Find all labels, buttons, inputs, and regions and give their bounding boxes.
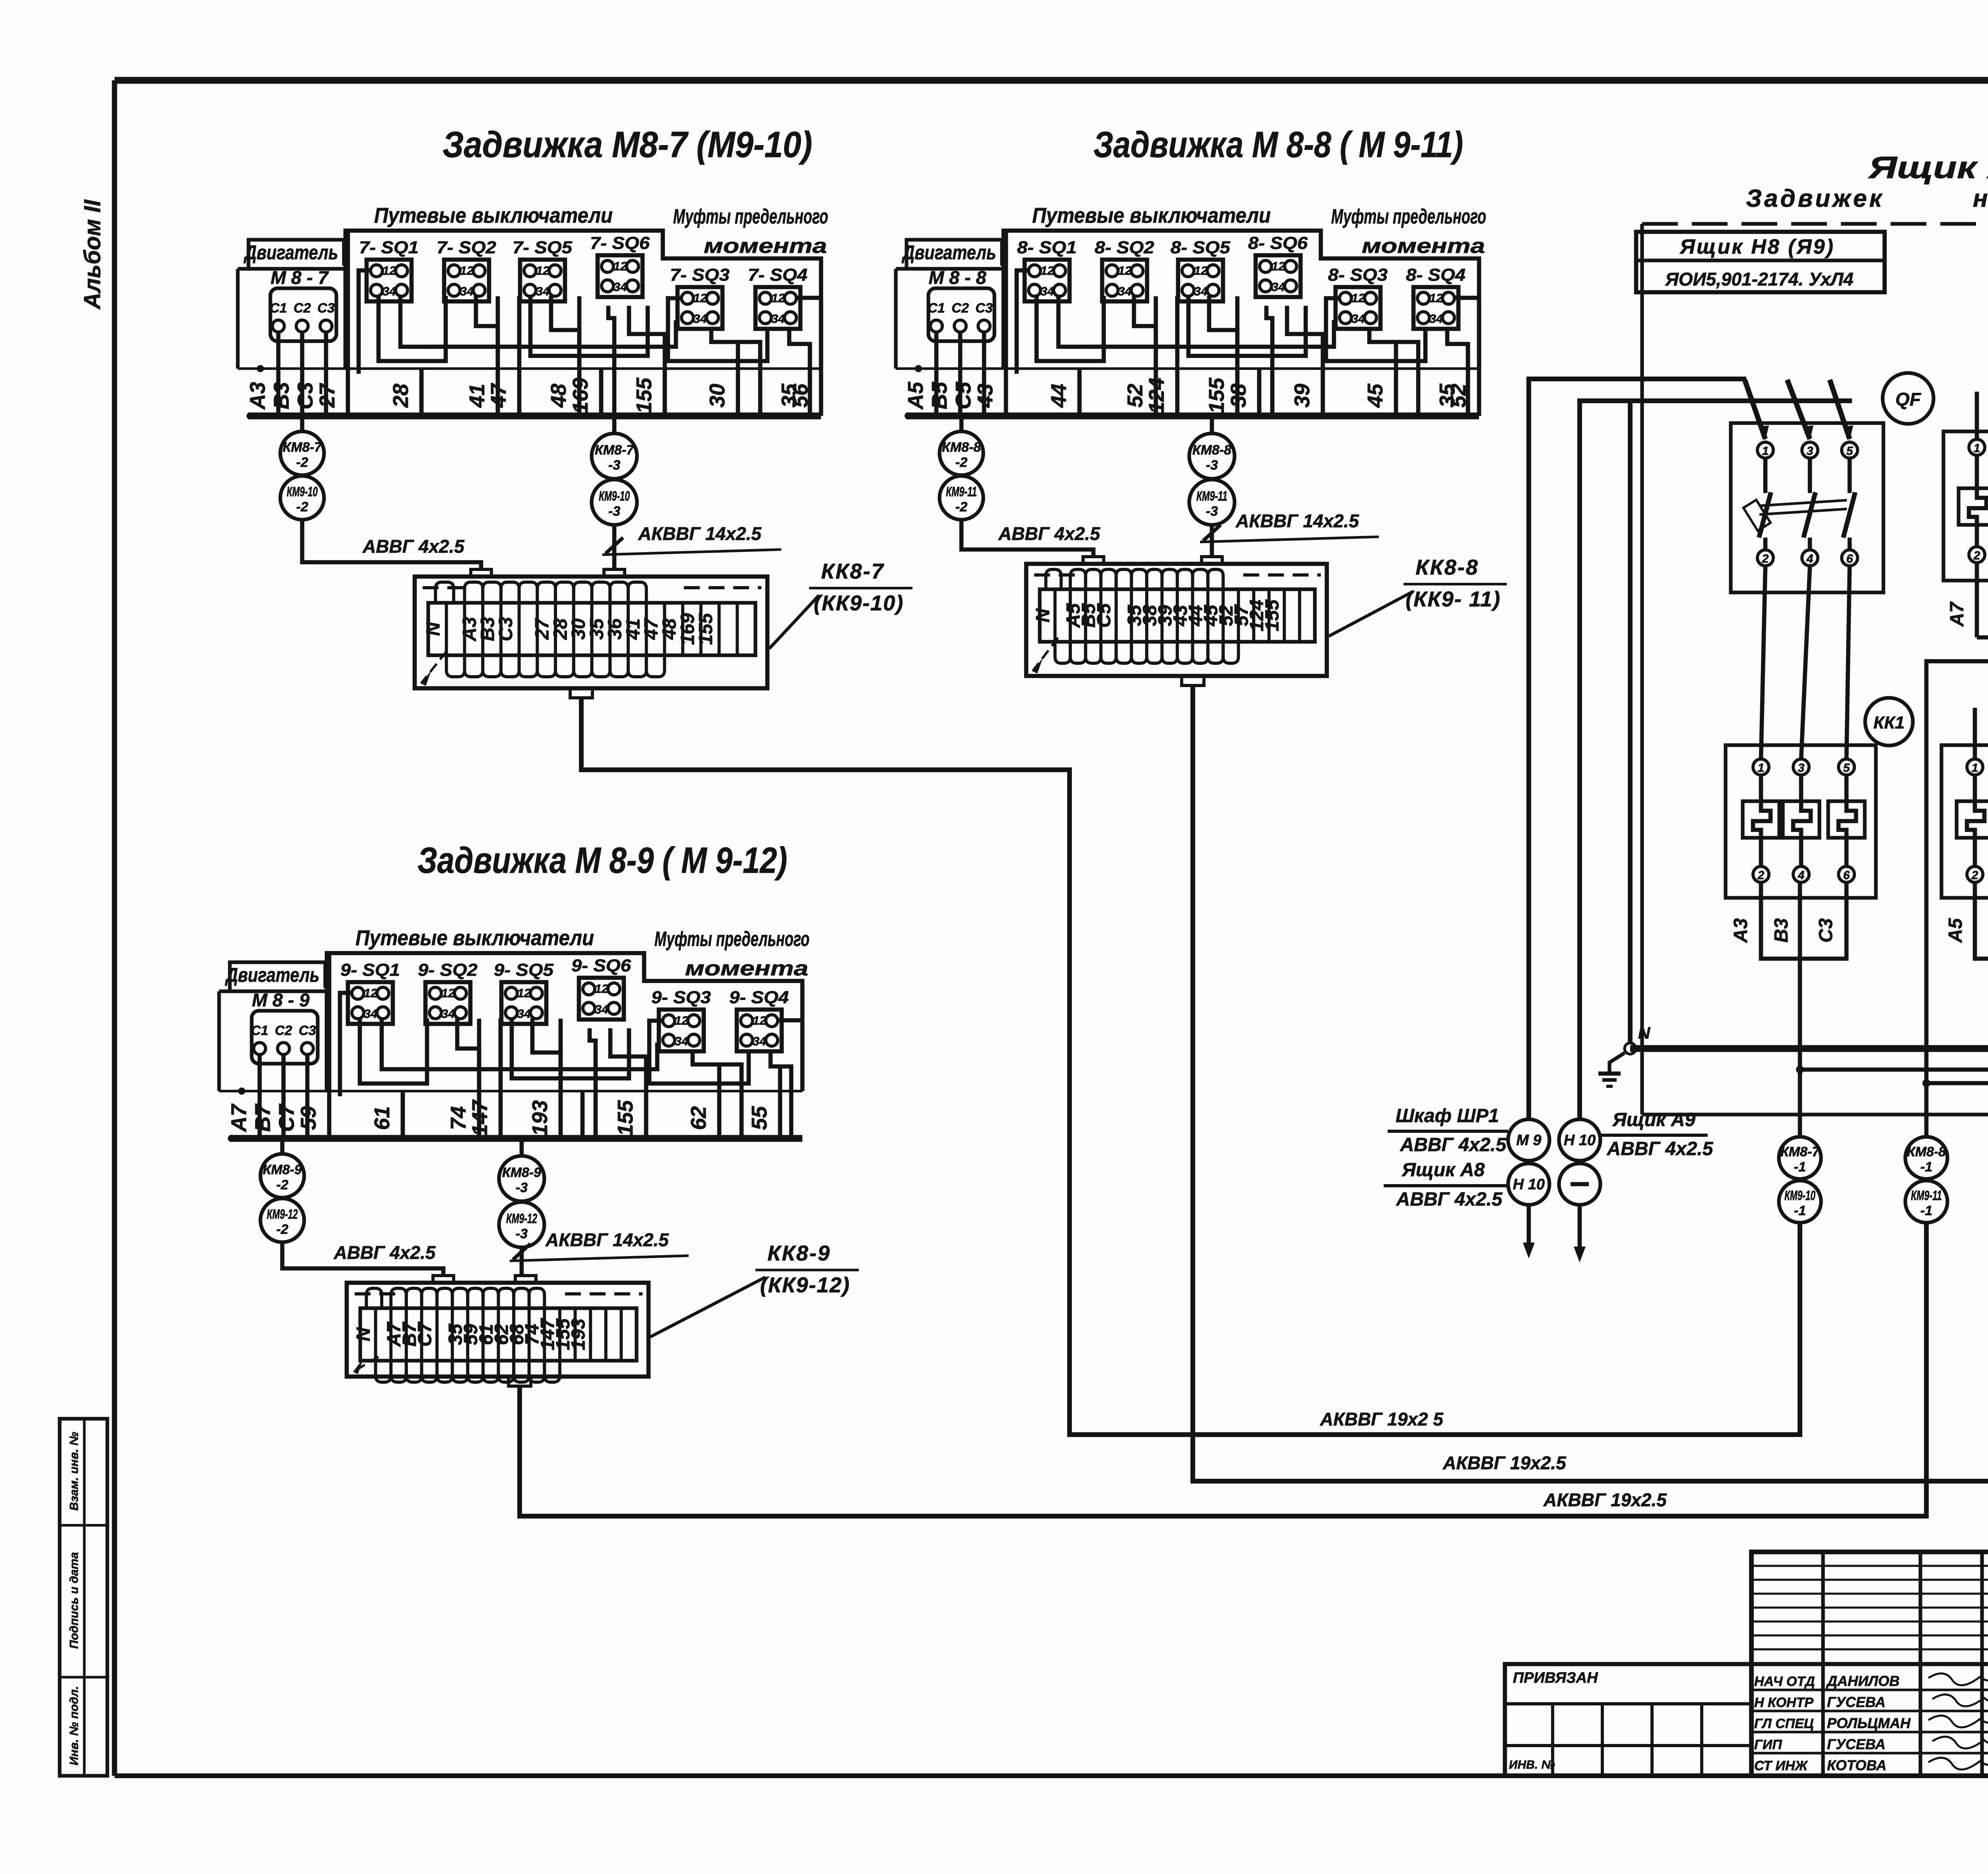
label Ящик А9 АВВГ 4х2.5 [1600, 1109, 1714, 1159]
svg-text:34: 34 [1194, 284, 1208, 298]
svg-text:12: 12 [1272, 259, 1285, 273]
contactor contact КМ8-7-1 [1779, 1137, 1821, 1179]
contactor contact КМ9-12|-2 [260, 1198, 304, 1242]
svg-text:Ящик Н8 (Я9): Ящик Н8 (Я9) [1679, 235, 1835, 258]
svg-text:-2: -2 [296, 455, 308, 470]
svg-text:3: 3 [1807, 445, 1813, 458]
svg-text:34: 34 [1429, 312, 1443, 326]
svg-text:ГЛ СПЕЦ: ГЛ СПЕЦ [1754, 1716, 1814, 1731]
svg-text:А3: А3 [1730, 918, 1751, 943]
svg-text:7- SQ2: 7- SQ2 [437, 238, 497, 257]
svg-text:Муфты предельного: Муфты предельного [1331, 205, 1486, 228]
svg-text:КМ8-9: КМ8-9 [502, 1165, 541, 1180]
source circle M9 [1508, 1119, 1549, 1161]
contactor contact КМ8-7|-2 [280, 418, 324, 475]
svg-text:155: 155 [613, 1100, 637, 1136]
cable АКВВГ 14х2.5 [602, 523, 781, 569]
svg-text:КМ8-8: КМ8-8 [942, 440, 981, 455]
wire 74 [447, 1019, 479, 1138]
terminal strip КК8-7 [415, 569, 767, 698]
limit switch 9-SQ1 [340, 960, 400, 1024]
terminal strip КК8-8 [1026, 557, 1327, 686]
terminal strip КК8-9 [347, 1276, 648, 1386]
svg-text:30: 30 [705, 384, 729, 408]
svg-text:Двигатель: Двигатель [225, 964, 319, 986]
N bus wire [1630, 676, 1988, 1053]
svg-text:74: 74 [447, 1106, 470, 1130]
wire В3 [270, 331, 302, 416]
svg-text:КК8-9: КК8-9 [767, 1241, 831, 1265]
svg-text:27: 27 [315, 383, 339, 408]
label Ящик А8 АВВГ 4х2.5 [1384, 1159, 1508, 1210]
svg-text:9- SQ6: 9- SQ6 [571, 956, 631, 975]
svg-text:7- SQ1: 7- SQ1 [359, 238, 419, 257]
svg-text:Альбом II: Альбом II [80, 199, 105, 310]
wire С7 [275, 1054, 307, 1138]
svg-text:Путевые выключатели: Путевые выключатели [355, 926, 594, 950]
label Муфты предельного момента [654, 928, 810, 980]
svg-text:1: 1 [1762, 445, 1769, 458]
svg-text:КМ9-10: КМ9-10 [287, 484, 318, 499]
svg-text:12: 12 [517, 986, 531, 1000]
svg-text:155: 155 [1262, 599, 1283, 631]
contactor contact КМ8-7|-3 [592, 418, 637, 479]
feeder wire from cabinet ШР1 (M9) [1529, 379, 1746, 1119]
contactor contact КМ8-9|-3 [499, 1140, 544, 1201]
svg-text:5: 5 [1843, 761, 1850, 775]
svg-text:ГУСЕВА: ГУСЕВА [1827, 1736, 1885, 1752]
label Двигатель [225, 962, 325, 991]
svg-text:Взам. инв. №: Взам. инв. № [68, 1432, 81, 1511]
wire С5 [951, 331, 984, 416]
wire 27 [315, 231, 348, 416]
svg-text:34: 34 [595, 1002, 608, 1016]
ground symbol [1598, 1053, 1625, 1086]
wire В7 [251, 1054, 283, 1138]
svg-text:ГУСЕВА: ГУСЕВА [1827, 1694, 1885, 1710]
svg-text:КМ9-12: КМ9-12 [267, 1207, 298, 1222]
label circle KK1 [1865, 698, 1913, 746]
svg-text:12: 12 [595, 982, 608, 996]
svg-text:2: 2 [1757, 869, 1765, 882]
svg-text:С3: С3 [1815, 918, 1837, 943]
svg-text:Н КОНТР: Н КОНТР [1754, 1695, 1813, 1710]
svg-text:12: 12 [753, 1014, 766, 1027]
contactor contact КМ9-11-1 [1905, 1181, 1947, 1223]
svg-text:62: 62 [687, 1106, 711, 1130]
svg-text:(КК9- 11): (КК9- 11) [1406, 587, 1501, 611]
svg-text:АКВВГ 14х2.5: АКВВГ 14х2.5 [1235, 511, 1359, 531]
wire 62 [687, 1064, 719, 1138]
svg-text:43: 43 [973, 384, 997, 408]
strip label КК8-8 [1329, 555, 1507, 636]
svg-text:В7: В7 [251, 1103, 275, 1132]
label Путевые выключатели [374, 204, 613, 227]
motor enclosure М 8 - 9 [219, 990, 325, 1091]
cable АКВВГ 14х2.5 [510, 1229, 689, 1276]
limit switch 7-SQ1 [359, 238, 419, 301]
svg-text:А5: А5 [1945, 918, 1966, 943]
switch interconnection wires [1017, 270, 1479, 416]
svg-text:193: 193 [528, 1100, 552, 1136]
svg-text:АКВВГ 19х2.5: АКВВГ 19х2.5 [1442, 1453, 1567, 1473]
svg-text:34: 34 [771, 312, 785, 326]
thermal relay KK1 [1726, 745, 1876, 898]
svg-text:34: 34 [517, 1007, 531, 1021]
svg-text:155: 155 [1205, 377, 1229, 414]
svg-text:55: 55 [747, 1106, 771, 1130]
svg-text:9- SQ5: 9- SQ5 [494, 960, 554, 980]
wire А3 [246, 331, 278, 416]
svg-text:АВВГ 4х2.5: АВВГ 4х2.5 [1607, 1138, 1714, 1159]
svg-text:8- SQ4: 8- SQ4 [1406, 265, 1466, 285]
svg-text:Двигатель: Двигатель [243, 241, 338, 264]
svg-text:Задвижка М8-7 (М9-10): Задвижка М8-7 (М9-10) [443, 124, 812, 165]
label Муфты предельного момента [1331, 205, 1486, 258]
wire 35 [1435, 344, 1468, 416]
svg-text:АВВГ 4х2.5: АВВГ 4х2.5 [334, 1242, 436, 1263]
cable run KK8-8 АКВВГ 19х2.5 [1193, 686, 1988, 1481]
contactor contact КМ9-12|-3 [499, 1202, 544, 1247]
wire 52 [1446, 298, 1479, 416]
svg-text:1: 1 [1972, 761, 1978, 775]
contactor contact КМ8-9|-2 [260, 1140, 304, 1198]
svg-text:АКВВГ 19х2.5: АКВВГ 19х2.5 [1543, 1489, 1667, 1510]
svg-text:момента: момента [685, 957, 808, 980]
harness top line [238, 367, 821, 370]
svg-text:КМ8-9: КМ8-9 [263, 1162, 302, 1177]
svg-text:12: 12 [1194, 264, 1208, 278]
svg-text:С3: С3 [299, 1023, 316, 1038]
wire 45 [1363, 342, 1396, 416]
svg-text:8- SQ6: 8- SQ6 [1248, 233, 1308, 253]
KK1 output wires A3 B3 C3 [1730, 882, 1846, 1137]
svg-text:4: 4 [1806, 552, 1813, 565]
contactor contact КМ8-8|-2 [940, 418, 983, 475]
wire 169 [569, 370, 601, 416]
source circle H10 (pair2) [1559, 1119, 1600, 1161]
panel subtitle Задвижек насосов песколовок [1746, 185, 1988, 212]
svg-text:34: 34 [693, 312, 707, 326]
torque clutch switch 9-SQ3 [651, 988, 711, 1051]
svg-text:(КК9-10): (КК9-10) [814, 591, 904, 615]
cable АВВГ 4х2.5 [302, 520, 481, 569]
svg-text:-3: -3 [1206, 458, 1218, 473]
svg-text:АКВВГ 14х2.5: АКВВГ 14х2.5 [545, 1229, 669, 1250]
harness top line [219, 1090, 802, 1093]
torque clutch switch 8-SQ4 [1406, 265, 1466, 329]
wire 38 [1227, 370, 1259, 416]
svg-text:С1: С1 [251, 1023, 268, 1038]
svg-text:Двигатель: Двигатель [901, 241, 996, 264]
svg-text:С5: С5 [1094, 603, 1115, 628]
cable АКВВГ 14х2.5 [1200, 511, 1379, 557]
svg-text:5: 5 [1846, 445, 1854, 458]
limit switch 7-SQ6 [590, 233, 650, 297]
limit switch 8-SQ6 [1248, 233, 1308, 297]
svg-text:12: 12 [1351, 291, 1365, 305]
switch interconnection wires [340, 993, 802, 1138]
svg-text:С5: С5 [951, 382, 975, 410]
svg-text:С3: С3 [975, 301, 993, 316]
svg-text:Ящик А9: Ящик А9 [1612, 1109, 1696, 1130]
section title Задвижка М 8-8 ( М 9-11) [1093, 124, 1463, 165]
svg-text:М 9: М 9 [1516, 1132, 1541, 1149]
svg-text:12: 12 [536, 264, 549, 278]
svg-text:КМ8-8: КМ8-8 [1192, 443, 1231, 458]
svg-text:12: 12 [460, 264, 474, 278]
svg-text:А7: А7 [227, 1103, 251, 1133]
wire А7 [227, 1054, 260, 1138]
circuit breaker QF [1731, 423, 1883, 592]
svg-text:Шкаф ШР1: Шкаф ШР1 [1396, 1105, 1499, 1126]
torque clutch switch 7-SQ4 [748, 265, 808, 329]
contactor contact КМ9-10|-2 [280, 476, 324, 520]
svg-text:Н 10: Н 10 [1564, 1132, 1596, 1149]
panel type label box [1636, 232, 1885, 292]
wire 41 [465, 296, 498, 416]
svg-text:С3: С3 [317, 301, 335, 316]
node N [1625, 1023, 1651, 1054]
QF to KK1 wires [1761, 567, 1850, 759]
svg-text:QF: QF [1895, 389, 1922, 410]
wire С3 [293, 331, 326, 416]
svg-text:34: 34 [1272, 280, 1285, 294]
signature rows [1754, 1673, 1988, 1773]
svg-text:12: 12 [675, 1014, 688, 1027]
svg-text:КМ9-11: КМ9-11 [1911, 1188, 1942, 1203]
limit switch 9-SQ6 [571, 956, 631, 1020]
svg-text:12: 12 [693, 291, 707, 305]
svg-text:-3: -3 [516, 1180, 528, 1195]
svg-text:СТ ИНЖ: СТ ИНЖ [1754, 1758, 1808, 1773]
svg-text:КМ9-10: КМ9-10 [1784, 1188, 1815, 1203]
wire 147 [468, 1019, 501, 1138]
title block [1751, 1552, 1988, 1776]
limit switch 8-SQ2 [1095, 238, 1155, 301]
svg-text:3: 3 [1798, 761, 1805, 775]
motor enclosure М 8 - 7 [238, 267, 344, 369]
contactor contact КМ9-11|-3 [1189, 480, 1235, 525]
svg-text:насосов: насосов [1973, 185, 1988, 212]
svg-text:КМ9-12: КМ9-12 [506, 1211, 537, 1226]
svg-text:34: 34 [1041, 284, 1054, 298]
wire 61 [370, 1092, 403, 1138]
left stamp column [60, 1419, 107, 1776]
switch interconnection wires [359, 270, 821, 416]
svg-text:2: 2 [1762, 552, 1769, 565]
svg-text:А3: А3 [246, 382, 270, 410]
svg-text:8- SQ3: 8- SQ3 [1328, 265, 1388, 285]
svg-text:39: 39 [1290, 384, 1314, 408]
harness top line [896, 367, 1479, 370]
svg-text:Ящик А8: Ящик А8 [1401, 1159, 1485, 1181]
section title Задвижка М8-7 (М9-10) [443, 124, 812, 165]
limit switch 9-SQ2 [418, 960, 478, 1024]
wire 59 [297, 953, 329, 1138]
wire 155 [613, 1092, 646, 1138]
svg-text:момента: момента [1362, 235, 1485, 258]
contactor contact КМ8-8|-3 [1189, 418, 1235, 479]
svg-text:ПРИВЯЗАН: ПРИВЯЗАН [1513, 1670, 1598, 1686]
svg-text:С2: С2 [951, 301, 969, 316]
switch group outline [1004, 231, 1479, 369]
svg-text:-1: -1 [1920, 1203, 1932, 1218]
svg-text:12: 12 [1429, 291, 1443, 305]
svg-text:Муфты предельного: Муфты предельного [654, 928, 810, 951]
cable АВВГ 4х2.5 [282, 1242, 443, 1276]
wire 55 [747, 1066, 780, 1138]
svg-text:Ящик А8 (Я9): Ящик А8 (Я9) [1868, 150, 1988, 185]
wire 44 [1047, 370, 1079, 416]
svg-text:6: 6 [1846, 552, 1853, 565]
svg-text:28: 28 [389, 384, 413, 408]
svg-text:КМ9-11: КМ9-11 [946, 484, 977, 499]
svg-text:7- SQ5: 7- SQ5 [513, 238, 573, 257]
contactor contact КМ9-10-1 [1779, 1181, 1821, 1223]
feeder wire N (H10) [1580, 401, 1852, 1119]
thermal relay KK3 [1943, 392, 1988, 581]
svg-text:А7: А7 [1947, 601, 1968, 627]
svg-text:В3: В3 [270, 382, 293, 409]
svg-text:Задвижка М 8-9 ( М 9-12): Задвижка М 8-9 ( М 9-12) [417, 840, 787, 881]
svg-text:34: 34 [1118, 284, 1132, 298]
svg-text:Задвижек: Задвижек [1746, 185, 1884, 212]
svg-text:В5: В5 [928, 382, 951, 410]
svg-text:2: 2 [1971, 869, 1978, 882]
binding box Привязан [1505, 1664, 1751, 1776]
panel lower wire 2 [1922, 640, 1988, 1087]
svg-text:-2: -2 [276, 1177, 288, 1192]
contactor contact КМ9-11|-2 [940, 476, 983, 520]
svg-text:61: 61 [370, 1106, 394, 1130]
svg-text:КОТОВА: КОТОВА [1827, 1757, 1887, 1773]
svg-text:КК8-7: КК8-7 [821, 559, 884, 583]
limit switch 8-SQ1 [1017, 238, 1077, 301]
svg-text:С2: С2 [293, 301, 311, 316]
svg-text:12: 12 [1041, 264, 1054, 278]
svg-text:АВВГ 4х2.5: АВВГ 4х2.5 [362, 536, 465, 557]
limit switch 7-SQ5 [513, 238, 573, 301]
svg-text:12: 12 [1118, 264, 1132, 278]
harness cable bus [905, 365, 1479, 419]
album label Albom II [80, 199, 105, 310]
svg-text:-2: -2 [296, 499, 308, 515]
contactor contact КМ8-8-1 [1905, 1137, 1947, 1179]
svg-text:КМ9-10: КМ9-10 [599, 489, 630, 504]
svg-text:N: N [353, 1327, 374, 1341]
svg-text:КМ9-11: КМ9-11 [1196, 489, 1227, 504]
wire 193 [528, 1019, 561, 1138]
svg-text:12: 12 [613, 259, 627, 273]
limit switch 8-SQ5 [1171, 238, 1231, 301]
svg-text:С1: С1 [928, 301, 945, 316]
wire 30 [705, 342, 738, 416]
source circle reserve [1559, 1163, 1600, 1262]
svg-text:-2: -2 [955, 455, 967, 470]
svg-text:М 8 - 9: М 8 - 9 [252, 990, 310, 1010]
svg-text:ИНВ. №: ИНВ. № [1509, 1758, 1555, 1771]
svg-text:7- SQ4: 7- SQ4 [748, 265, 808, 285]
label Двигатель [243, 240, 344, 269]
svg-text:АВВГ 4х2.5: АВВГ 4х2.5 [1396, 1189, 1503, 1210]
svg-text:-3: -3 [516, 1226, 528, 1241]
wire 52 [1123, 296, 1156, 416]
torque clutch switch 8-SQ3 [1328, 265, 1388, 329]
svg-text:ЯОИ5,901-2174. УхЛ4: ЯОИ5,901-2174. УхЛ4 [1665, 269, 1854, 289]
svg-text:7- SQ3: 7- SQ3 [670, 265, 730, 285]
svg-text:9- SQ2: 9- SQ2 [418, 960, 478, 980]
wire 124 [1145, 296, 1177, 416]
wire 28 [389, 370, 421, 416]
svg-text:М 8 - 8: М 8 - 8 [929, 267, 986, 288]
svg-text:34: 34 [460, 284, 474, 298]
switch group outline [327, 953, 802, 1091]
svg-text:41: 41 [465, 384, 489, 408]
torque clutch switch 7-SQ3 [670, 265, 730, 329]
limit switch 9-SQ5 [494, 960, 554, 1024]
svg-text:В5: В5 [1986, 918, 1988, 943]
svg-text:9- SQ3: 9- SQ3 [651, 988, 711, 1007]
harness cable bus [228, 1088, 802, 1142]
wire В5 [928, 331, 960, 416]
svg-text:9- SQ4: 9- SQ4 [729, 988, 789, 1007]
svg-text:155: 155 [695, 613, 716, 645]
svg-text:ДАНИЛОВ: ДАНИЛОВ [1826, 1673, 1900, 1689]
svg-text:С7: С7 [414, 1321, 435, 1347]
svg-text:-3: -3 [608, 458, 620, 473]
svg-text:КК8-8: КК8-8 [1415, 555, 1479, 579]
switch group outline [346, 231, 821, 369]
svg-text:34: 34 [1351, 312, 1365, 326]
svg-text:РОЛЬЦМАН: РОЛЬЦМАН [1827, 1715, 1911, 1731]
svg-text:N: N [1033, 608, 1054, 622]
wire 47 [487, 296, 519, 416]
wire 155 [632, 370, 665, 416]
harness cable bus [247, 365, 821, 419]
svg-text:АВВГ 4х2.5: АВВГ 4х2.5 [1400, 1134, 1507, 1155]
svg-text:59: 59 [297, 1106, 320, 1130]
label circle QF [1883, 373, 1934, 424]
cable run KK8-7 to KM8-7-1 АКВВГ 19х2.5 [581, 698, 1800, 1435]
svg-text:8- SQ1: 8- SQ1 [1017, 238, 1077, 257]
svg-text:8- SQ5: 8- SQ5 [1171, 238, 1231, 257]
svg-text:34: 34 [382, 284, 396, 298]
svg-text:9- SQ1: 9- SQ1 [340, 960, 400, 980]
svg-text:45: 45 [1363, 383, 1387, 408]
strip label КК8-7 [769, 559, 912, 649]
strip label КК8-9 [650, 1241, 859, 1337]
svg-text:КМ8-7: КМ8-7 [595, 443, 635, 458]
svg-text:М 8 - 7: М 8 - 7 [271, 267, 329, 288]
cable АВВГ 4х2.5 [961, 520, 1101, 557]
panel enclosure box [1642, 224, 1988, 1115]
svg-text:АВВГ 4х2.5: АВВГ 4х2.5 [998, 523, 1101, 544]
svg-text:1: 1 [1758, 761, 1765, 775]
label Путевые выключатели [1032, 204, 1271, 227]
svg-text:12: 12 [382, 264, 396, 278]
svg-text:8- SQ2: 8- SQ2 [1095, 238, 1155, 257]
svg-text:193: 193 [568, 1319, 589, 1350]
phase drop wires into QF [1745, 380, 1853, 441]
svg-text:Путевые выключатели: Путевые выключатели [1032, 204, 1271, 227]
svg-text:-1: -1 [1794, 1203, 1806, 1218]
svg-text:34: 34 [364, 1007, 377, 1021]
svg-text:34: 34 [536, 284, 549, 298]
svg-text:С3: С3 [293, 382, 317, 409]
svg-text:12: 12 [441, 986, 455, 1000]
wire 43 [973, 231, 1006, 416]
